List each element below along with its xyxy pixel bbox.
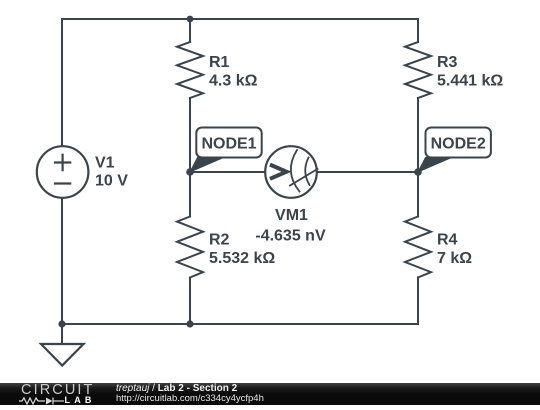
junction node A (NODE1): [186, 168, 194, 176]
svg-text:VM1: VM1: [275, 207, 308, 224]
wire R4 top lead: [417, 172, 419, 217]
wire voltmeter right lead: [317, 171, 418, 173]
svg-text:5.441 kΩ: 5.441 kΩ: [437, 73, 503, 90]
wire top rail left segment: [62, 18, 190, 20]
ground: [41, 344, 84, 366]
svg-text:7 kΩ: 7 kΩ: [437, 250, 472, 267]
footer title text: [116, 383, 237, 394]
voltage source V1: [37, 146, 128, 198]
junction top rail / R1: [187, 16, 194, 23]
wire top rail right segment: [190, 18, 418, 20]
wire R4 bottom lead: [417, 278, 419, 325]
wire left rail (top lead of V1): [61, 19, 63, 146]
svg-text:V1: V1: [95, 155, 115, 172]
svg-text:R4: R4: [437, 232, 458, 249]
wire R1 top lead: [189, 19, 191, 42]
footer bar: [0, 383, 540, 405]
CircuitLab logo wordmark LAB: [65, 397, 96, 404]
resistor R2: [177, 217, 275, 278]
junction bottom rail / R2: [186, 320, 193, 327]
svg-text:R1: R1: [209, 54, 230, 71]
wire voltmeter left lead: [190, 171, 265, 173]
resistor R1: [177, 42, 258, 98]
svg-text:-4.635 nV: -4.635 nV: [255, 228, 326, 245]
svg-text:NODE1: NODE1: [201, 136, 256, 153]
svg-text:5.532 kΩ: 5.532 kΩ: [209, 250, 275, 267]
wire R1 bottom lead to node1: [189, 98, 191, 172]
footer url text: [116, 393, 264, 404]
svg-text:NODE2: NODE2: [431, 136, 486, 153]
wire V1 bottom lead to ground: [61, 198, 63, 344]
wire R3 bottom lead to node2: [417, 98, 419, 172]
svg-text:R2: R2: [209, 232, 230, 249]
wire bottom rail left segment: [62, 323, 190, 325]
node label NODE1: [190, 128, 262, 173]
junction bottom rail / ground: [58, 320, 65, 327]
CircuitLab logo wordmark CIRCUIT: [21, 385, 95, 396]
junction node B (NODE2): [414, 168, 422, 176]
wire R2 top lead: [189, 172, 191, 217]
svg-text:10 V: 10 V: [95, 173, 128, 190]
wire R3 top lead: [417, 19, 419, 42]
voltmeter VM1: [255, 146, 326, 244]
wire bottom rail right segment: [190, 323, 418, 325]
resistor R4: [405, 217, 472, 278]
svg-text:R3: R3: [437, 54, 458, 71]
node label NODE2: [418, 128, 491, 173]
CircuitLab logo resistor zigzag and diode: [19, 396, 65, 406]
svg-text:4.3 kΩ: 4.3 kΩ: [209, 73, 258, 90]
wire R2 bottom lead: [189, 278, 191, 325]
resistor R3: [405, 42, 503, 98]
